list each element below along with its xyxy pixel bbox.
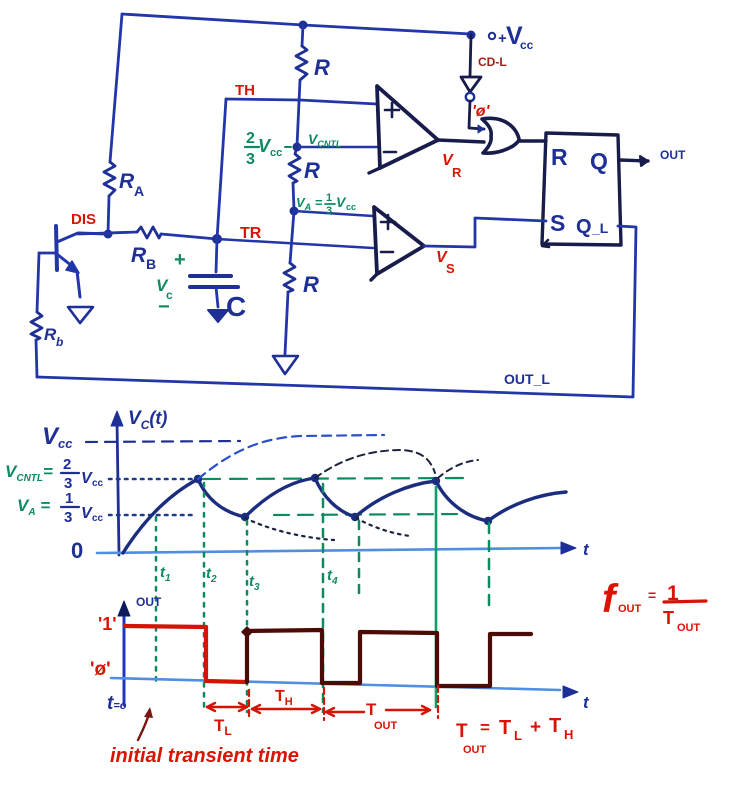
svg-text:3: 3 [246, 151, 255, 168]
svg-text:TH: TH [235, 82, 255, 99]
svg-text:VA =: VA = [17, 496, 50, 518]
wire OR to latch R [519, 139, 546, 142]
resistor RA [104, 162, 115, 196]
wire U2 output to latch S [424, 218, 546, 247]
svg-text:t1: t1 [160, 564, 171, 584]
arrow TL [207, 703, 247, 711]
svg-text:t: t [583, 540, 590, 559]
svg-text:'1': '1' [98, 614, 117, 634]
svg-text:R: R [551, 144, 568, 170]
formula fout [602, 577, 706, 634]
axis x2 [111, 678, 560, 690]
node trough3 [484, 517, 492, 525]
node peak1 [194, 475, 202, 483]
svg-text:OUT: OUT [677, 622, 701, 634]
wire TH to comparator U1 plus [226, 99, 377, 104]
power +Vcc [489, 22, 534, 52]
svg-text:VC(t): VC(t) [128, 408, 167, 432]
ground capacitor [208, 310, 228, 322]
arrow TH [252, 705, 320, 713]
wire base [39, 252, 56, 255]
wire RB to TR node [161, 234, 217, 239]
resistor R top [296, 46, 307, 80]
timeline t1 [155, 517, 158, 685]
latch U4 SR flip-flop [542, 133, 621, 245]
timeline t2 [203, 483, 206, 710]
svg-text:OUT_L: OUT_L [504, 371, 550, 387]
svg-text:=: = [480, 718, 490, 737]
svg-text:3: 3 [64, 509, 72, 526]
svg-text:DIS: DIS [71, 211, 96, 228]
axis x1 [97, 548, 562, 553]
node peak2 [311, 474, 319, 482]
timeline t3 [246, 521, 249, 712]
svg-text:_L: _L [591, 220, 609, 236]
svg-text:L: L [514, 728, 522, 743]
wire R middle to VA node [293, 183, 294, 210]
svg-text:S: S [446, 261, 455, 276]
svg-text:OUT: OUT [660, 148, 686, 162]
axis y2 [123, 610, 126, 705]
svg-text:Vcc: Vcc [42, 423, 73, 451]
wire TR up to TH [217, 99, 226, 239]
svg-text:TL: TL [214, 716, 232, 738]
svg-text:VCNTL=: VCNTL= [5, 462, 53, 484]
wire DIS to RB [78, 232, 137, 234]
tick red t3 [248, 690, 250, 718]
svg-text:OUT: OUT [136, 595, 162, 609]
ground emitter [68, 307, 93, 323]
annotation arrow [138, 711, 150, 740]
wire U1 output [438, 140, 484, 142]
timeline t4 [322, 484, 325, 712]
svg-text:b: b [56, 335, 63, 349]
svg-text:T: T [456, 721, 468, 742]
wire VA to comparator U2 plus [294, 211, 373, 216]
waveform OUT red part [125, 626, 247, 682]
op-amp U1 comparator [377, 86, 438, 168]
svg-text:=: = [648, 587, 656, 603]
svg-text:OUT: OUT [463, 744, 487, 756]
node VA [290, 207, 299, 216]
svg-text:cc: cc [270, 147, 282, 159]
node peak3 [432, 477, 440, 485]
wire RA to DIS node [108, 196, 109, 234]
svg-text:'ø': 'ø' [90, 659, 111, 680]
curve Vc waveform [123, 478, 566, 553]
envelope black dashed [315, 450, 435, 478]
svg-text:T: T [549, 715, 561, 737]
envelope black dashed short [438, 460, 478, 478]
wire Vcntl to comparator U1 minus [297, 146, 377, 149]
wire base down to Rb [37, 253, 39, 312]
svg-text:Q: Q [590, 148, 608, 174]
svg-text:CD-L: CD-L [478, 55, 507, 69]
node trough2 [351, 513, 359, 521]
svg-text:f: f [602, 577, 619, 621]
wire OUT_L bottom rail [37, 377, 633, 397]
wire CD_L from Vcc [470, 35, 471, 76]
svg-text:TH: TH [275, 688, 293, 708]
svg-text:R: R [304, 158, 320, 183]
label 2/3 Vcc [245, 130, 282, 168]
svg-text:t2: t2 [206, 565, 217, 585]
ground divider [273, 356, 298, 374]
wire Q output OUT [620, 160, 648, 161]
resistor Rb [31, 312, 42, 340]
capacitor C [216, 239, 217, 272]
svg-text:2: 2 [63, 456, 71, 473]
inverter CD_L [461, 77, 481, 92]
svg-text:R: R [131, 244, 147, 267]
transistor Q1 [56, 226, 108, 297]
svg-text:initial transient time: initial transient time [110, 745, 299, 767]
node rise marker [241, 626, 253, 638]
svg-text:cc: cc [92, 513, 104, 524]
svg-text:T: T [663, 608, 674, 628]
gridline Vcntl green dashed [203, 478, 470, 479]
axis y1 [117, 420, 119, 555]
svg-text:OUT: OUT [374, 720, 398, 732]
node Vcc terminal [467, 31, 476, 40]
wire Rb to bottom rail [36, 340, 37, 377]
svg-text:R: R [303, 272, 319, 297]
node TR [212, 234, 222, 244]
svg-text:B: B [146, 256, 156, 272]
svg-text:R: R [314, 55, 330, 80]
wire TR to comparator U2 minus [217, 239, 373, 248]
tick red t4 [323, 688, 325, 720]
resistor R middle [289, 147, 300, 183]
svg-text:1: 1 [326, 192, 332, 204]
gridline VA dotted [109, 514, 197, 517]
timeline dashed right [488, 523, 491, 608]
gridline VA green dashed [274, 514, 466, 515]
wire R top to Vcntl node [297, 80, 300, 146]
formula Tout = TL + TH [456, 715, 573, 756]
svg-text:cc: cc [92, 478, 104, 489]
svg-text:S: S [550, 210, 565, 236]
decay dotted 1 [245, 518, 334, 540]
label VA = 1/3 Vcc [296, 192, 356, 217]
resistor RB [137, 227, 161, 238]
svg-text:t: t [583, 693, 590, 712]
svg-text:+: + [530, 717, 541, 738]
svg-text:T: T [366, 700, 377, 719]
gridline Vcntl dotted [109, 478, 196, 481]
svg-text:VCNTL: VCNTL [308, 131, 341, 149]
wire inverter to OR gate [469, 101, 484, 129]
node Vcntl [293, 143, 302, 152]
node DIS [104, 230, 113, 239]
svg-text:2: 2 [246, 130, 255, 147]
svg-text:R: R [119, 170, 135, 193]
svg-text:3: 3 [326, 205, 332, 217]
wire VA down [290, 211, 294, 263]
wire R bottom to ground [285, 292, 288, 354]
gridline Vcc dashed [86, 441, 240, 442]
node trough1 [241, 513, 249, 521]
envelope blue dashed [198, 435, 384, 479]
svg-text:+: + [174, 249, 186, 271]
svg-text:cc: cc [520, 38, 534, 52]
OR gate U3 [482, 118, 519, 153]
resistor R bottom [284, 263, 295, 292]
timeline solid [435, 487, 438, 707]
svg-text:A: A [134, 183, 144, 199]
waveform OUT dark part [247, 630, 531, 686]
svg-text:t4: t4 [327, 567, 338, 587]
node top-rail junction [299, 21, 308, 30]
svg-text:C: C [226, 291, 246, 322]
svg-text:H: H [564, 727, 573, 742]
svg-text:t3: t3 [249, 573, 260, 593]
arrow Tout [326, 706, 430, 716]
wire top rail [122, 14, 471, 34]
svg-text:OUT: OUT [618, 603, 642, 615]
svg-text:VA =: VA = [296, 195, 323, 212]
svg-text:−: − [158, 296, 170, 318]
svg-text:R: R [452, 165, 462, 180]
svg-text:T: T [499, 717, 511, 739]
svg-text:1: 1 [65, 490, 73, 507]
svg-text:Q: Q [576, 216, 592, 238]
wire Q_L feedback down [618, 226, 636, 396]
decay dotted 2 [356, 518, 410, 536]
wire divider top [302, 25, 303, 46]
svg-text:cc: cc [346, 202, 356, 212]
timeline trough2 short [358, 521, 361, 600]
wire left vertical from top rail [110, 14, 122, 162]
op-amp U2 comparator [374, 207, 424, 274]
svg-text:0: 0 [71, 538, 83, 563]
tick red Tout end [437, 686, 439, 718]
